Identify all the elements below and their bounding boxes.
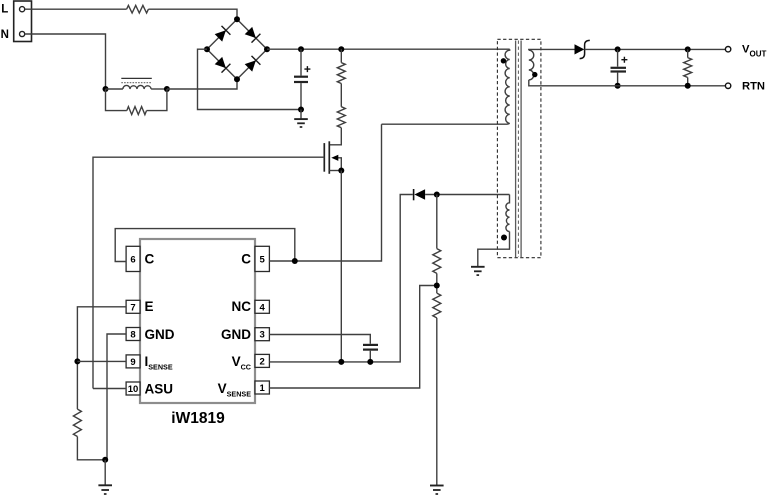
svg-text:E: E [145, 299, 154, 314]
node output cap bottom [615, 83, 621, 89]
svg-text:8: 8 [130, 330, 135, 341]
ground primary (below bulk cap) [294, 119, 308, 127]
choke core dashed line [121, 82, 152, 84]
wire divider bottom to ground [436, 318, 438, 486]
node vcc / cap [367, 359, 373, 365]
resistor R damping (parallel with choke) [127, 107, 147, 115]
bridge diode D bottom-right [245, 60, 256, 71]
resistor R divider lower [433, 293, 441, 318]
wire fuse to bridge top [148, 9, 237, 19]
capacitor C bulk electrolytic [294, 49, 310, 109]
node rail startup resistors [338, 46, 344, 52]
wire aux bottom to ground [478, 232, 510, 267]
wire choke left lead [106, 88, 123, 90]
wire pin6 stub and loop to pin5 [115, 229, 295, 262]
wire divider middle [436, 273, 438, 293]
node controller ground junction [102, 457, 108, 463]
node pin5 wire junction [292, 258, 298, 264]
node vcc / source [338, 359, 344, 365]
diode D vcc rectifier [414, 189, 510, 200]
choke core solid line [121, 77, 152, 79]
bridge diode D top-right [245, 27, 256, 38]
source stub [329, 170, 341, 172]
wire to primary ground [300, 110, 302, 120]
svg-text:3: 3 [260, 330, 265, 341]
wire pin5 to primary bottom vertical [269, 124, 381, 261]
wire choke to bridge bottom [167, 79, 237, 89]
svg-text:2: 2 [260, 356, 265, 367]
pin 6 box [126, 246, 140, 271]
resistor R sense [73, 409, 81, 436]
wire resistor to mosfet drain [329, 128, 341, 145]
node aux diode junction [434, 192, 440, 198]
pin 7 box [126, 300, 140, 313]
wire primary bottom [382, 123, 508, 125]
wire secondary top to output diode [529, 48, 575, 51]
node bridge left [204, 46, 210, 52]
node secondary polarity dot [532, 72, 537, 77]
body connection with arrow [336, 158, 342, 171]
node E / Isense junction [74, 358, 80, 364]
wire Vout line [585, 48, 726, 50]
wire pin1 Vsense to divider [269, 286, 436, 389]
pin 10 box [126, 382, 140, 395]
node divider tap [434, 283, 440, 289]
wire L to fuse [25, 8, 127, 10]
resistor R startup upper [337, 49, 345, 83]
capacitor C output electrolytic [611, 49, 628, 85]
wire gate to ASU [93, 157, 324, 388]
wire pin3 GND to vcc cap [269, 335, 370, 344]
node output cap top [615, 46, 621, 52]
resistor R startup lower [337, 84, 345, 128]
resistor R load [684, 49, 692, 86]
terminal RTN [725, 83, 730, 88]
svg-text:5: 5 [260, 254, 266, 265]
bridge rectifier BR1 [204, 16, 270, 82]
capacitor C vcc [363, 345, 378, 362]
svg-text:C: C [241, 252, 251, 267]
wire secondary bottom / RTN line [529, 80, 726, 86]
wire pin7 E down to sense resistor [77, 307, 126, 409]
svg-text:10: 10 [128, 384, 139, 395]
node load resistor bottom [685, 83, 691, 89]
ground controller [98, 485, 112, 494]
pin 3 box [255, 328, 269, 341]
pin 5 box [255, 246, 269, 271]
winding secondary [529, 50, 534, 80]
svg-text:ASU: ASU [145, 381, 174, 396]
wire HV rail [267, 48, 510, 50]
pin 9 box [126, 355, 140, 368]
svg-text:1: 1 [260, 383, 266, 394]
transformer core solid lines [516, 41, 522, 258]
wire to damping resistor left [106, 89, 127, 111]
wire source down to Vcc line [340, 171, 342, 362]
ground divider [430, 486, 444, 495]
transformer T1 dashed box [497, 39, 541, 257]
node load resistor top [685, 46, 691, 52]
bridge diode D top-left [215, 30, 226, 41]
inductor L1 choke winding [123, 85, 151, 89]
svg-text:NC: NC [232, 299, 252, 314]
node mosfet source [338, 168, 344, 174]
wire pin8 GND down [107, 334, 126, 460]
svg-text:GND: GND [221, 327, 251, 342]
transistor Q1 startup MOSFET [324, 141, 344, 174]
node bridge top [234, 16, 240, 22]
resistor RF (fusible) [127, 5, 149, 13]
wire down to ground [104, 460, 106, 486]
svg-text:L: L [1, 4, 8, 16]
pin 4 box [255, 300, 269, 313]
wire N to choke [25, 34, 106, 89]
svg-text:N: N [1, 29, 9, 41]
svg-text:GND: GND [145, 327, 175, 342]
node bridge right [264, 46, 270, 52]
wire DC minus: bridge left to bulk cap bottom [198, 49, 302, 109]
winding primary [505, 49, 510, 124]
svg-text:4: 4 [260, 302, 266, 313]
wire pin2 Vcc to aux diode [269, 195, 412, 362]
node primary polarity dot [501, 58, 506, 63]
winding auxiliary [506, 195, 510, 232]
node choke right [164, 86, 170, 92]
wire choke right lead [151, 88, 167, 90]
IC U1 iW1819 body [140, 239, 255, 403]
node bridge bottom [234, 76, 240, 82]
svg-text:C: C [145, 252, 155, 267]
gate bar [323, 143, 325, 172]
svg-text:9: 9 [130, 357, 135, 368]
node aux polarity dot [501, 235, 507, 241]
svg-text:iW1819: iW1819 [171, 410, 225, 427]
terminal Vout [725, 47, 730, 52]
node rail bulk cap [298, 46, 304, 52]
wire divider top [436, 195, 438, 249]
pin 8 box [126, 328, 140, 341]
resistor R divider upper [433, 249, 441, 274]
wire sense resistor to gnd junction [77, 437, 105, 460]
bridge diamond wires [207, 19, 267, 79]
pin 1 box [255, 381, 269, 394]
svg-text:RTN: RTN [742, 80, 765, 92]
node bulk cap bottom [298, 107, 304, 113]
wire pin9 Isense [77, 360, 126, 362]
bridge diode D bottom-left [215, 57, 226, 68]
wire damping resistor right [147, 89, 167, 111]
svg-text:6: 6 [130, 254, 135, 265]
channel bar [328, 141, 330, 174]
svg-text:7: 7 [130, 302, 135, 313]
pin 2 box [255, 354, 269, 367]
connector J1 AC input [14, 1, 32, 42]
node choke left [103, 86, 109, 92]
transformer core dashed center line [517, 41, 519, 258]
wire pin10 ASU [93, 388, 126, 390]
diode D output schottky [575, 40, 590, 58]
ground aux [471, 267, 485, 275]
